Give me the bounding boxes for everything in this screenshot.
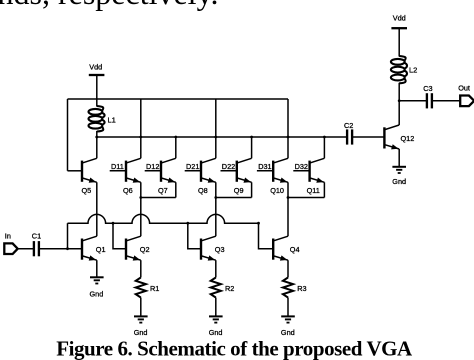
- wire top rail drop at Q10 collector: [287, 99, 289, 137]
- capacitor C1: [34, 241, 39, 256]
- wire top rail drop at Q8 collector: [215, 99, 217, 137]
- svg-text:In: In: [5, 231, 11, 240]
- document text fragment (top, clipped): [0, 0, 218, 11]
- wire output rail to Q6 collector: [140, 137, 142, 158]
- wire output node rail: [97, 136, 347, 138]
- svg-text:R2: R2: [225, 284, 234, 293]
- svg-text:Out: Out: [458, 83, 470, 92]
- label C2: [344, 121, 353, 130]
- svg-text:bands, respectively.: bands, respectively.: [0, 0, 218, 11]
- svg-text:Q7: Q7: [158, 186, 168, 195]
- ground under Q1: [90, 277, 104, 283]
- svg-text:Q6: Q6: [123, 186, 133, 195]
- svg-text:Q4: Q4: [290, 245, 300, 254]
- wire Vdd to L1: [96, 75, 98, 107]
- wire input riser to distribution line: [67, 223, 69, 249]
- wire Vdd to L2: [398, 28, 400, 56]
- wire jog to Q2 base: [113, 223, 126, 249]
- junction dots on output rail: [95, 136, 325, 139]
- wire node to C3: [399, 100, 426, 102]
- node output (L2/C3/Q12 junction): [398, 99, 401, 102]
- svg-text:C3: C3: [423, 84, 432, 93]
- wire Q6 emitter to tie: [140, 182, 142, 197]
- label Q9: [234, 186, 244, 195]
- transistor Q2: [126, 236, 141, 260]
- svg-text:C2: C2: [344, 121, 353, 130]
- label D31 control input: [258, 162, 271, 171]
- label D12 control input: [146, 162, 159, 171]
- input terminal In: [4, 243, 17, 254]
- svg-text:Q9: Q9: [234, 186, 244, 195]
- svg-text:Vdd: Vdd: [89, 62, 102, 71]
- wire Q11 emitter to tie: [323, 182, 325, 197]
- label Q8: [198, 186, 208, 195]
- inductor L2: [391, 56, 407, 83]
- wire top rail: [68, 98, 289, 100]
- svg-text:Gnd: Gnd: [392, 177, 406, 186]
- inductor L1: [89, 106, 105, 132]
- svg-text:Q1: Q1: [96, 245, 106, 254]
- svg-text:L1: L1: [108, 116, 116, 125]
- label Vdd left: [89, 62, 102, 71]
- wire In to C1: [18, 248, 34, 250]
- power Vdd (right supply): [391, 27, 407, 29]
- label Q5: [82, 186, 92, 195]
- svg-text:Vdd: Vdd: [393, 14, 406, 23]
- wire output rail to Q5 collector: [96, 137, 98, 158]
- wire R2 to ground: [215, 298, 217, 317]
- svg-text:D11: D11: [111, 162, 124, 171]
- wire Q7 emitter to tie: [175, 182, 177, 197]
- wire base distribution line with crossover hops: [68, 214, 259, 223]
- ground under R2: [209, 316, 223, 322]
- label Q6: [123, 186, 133, 195]
- transistor Q11: [293, 158, 324, 182]
- label Vdd right: [393, 14, 406, 23]
- svg-text:Q12: Q12: [401, 134, 415, 143]
- wire left vertical (top rail to Q5 base): [67, 99, 69, 171]
- wire jog to Q3 base: [188, 223, 201, 249]
- label R3: [297, 284, 306, 293]
- svg-text:C1: C1: [32, 231, 41, 240]
- wire Q1 emitter to ground: [96, 260, 98, 277]
- svg-text:Q3: Q3: [215, 245, 225, 254]
- wire R3 to ground: [287, 298, 289, 317]
- label D21 control input: [186, 162, 199, 171]
- wire C2 to Q12 base: [352, 136, 384, 138]
- junction dots on emitter ties: [139, 196, 289, 199]
- svg-text:Q2: Q2: [140, 245, 150, 254]
- power Vdd (left supply): [89, 74, 105, 76]
- wire Q9 emitter to tie: [251, 182, 253, 197]
- wire C1 to Q1 base: [39, 248, 82, 250]
- transistor Q12: [384, 125, 399, 149]
- wire C3 to Out: [432, 100, 460, 102]
- wire Q3 emitter to R2: [215, 260, 217, 277]
- transistor Q5: [68, 158, 97, 182]
- svg-text:L2: L2: [409, 66, 417, 75]
- wire Q12 collector to node: [398, 101, 400, 125]
- wire output rail to Q8 collector: [215, 137, 217, 158]
- label R1: [150, 284, 159, 293]
- svg-text:D12: D12: [146, 162, 159, 171]
- transistor Q10: [257, 158, 288, 182]
- wire output rail to Q11 collector: [323, 137, 325, 158]
- wire Q5 emitter down to Q1 collector: [96, 182, 98, 236]
- label C1: [32, 231, 41, 240]
- label Gnd under R1: [134, 328, 148, 337]
- svg-text:Q10: Q10: [270, 186, 284, 195]
- label D11 control input: [111, 162, 124, 171]
- wire top rail drop at Q6 collector: [140, 99, 142, 137]
- wire Q10-Q11 emitter tie: [288, 197, 324, 199]
- ground under R3: [281, 316, 295, 322]
- svg-text:Figure 6. Schematic of the pro: Figure 6. Schematic of the proposed VGA: [56, 337, 413, 360]
- svg-text:R3: R3: [297, 284, 306, 293]
- label D22 control input: [222, 162, 235, 171]
- svg-text:R1: R1: [150, 284, 159, 293]
- label Gnd under R3: [281, 328, 295, 337]
- label Out: [458, 83, 470, 92]
- ground under Q12: [392, 167, 406, 173]
- svg-text:D22: D22: [222, 162, 235, 171]
- label Gnd under Q1: [90, 290, 104, 299]
- svg-text:D31: D31: [258, 162, 271, 171]
- transistor Q7: [145, 158, 176, 182]
- wire Q6-Q7 emitter tie: [141, 197, 176, 199]
- transistor Q8: [185, 158, 216, 182]
- caption Figure 6: [56, 337, 413, 360]
- resistor R3: [283, 278, 293, 298]
- wire R1 to ground: [140, 298, 142, 317]
- label Q12: [401, 134, 415, 143]
- wire tie down to Q4 collector: [287, 198, 289, 237]
- resistor R2: [211, 278, 221, 298]
- wire output rail to Q9 collector: [251, 137, 253, 158]
- label Q11: [307, 186, 320, 195]
- label Q1: [96, 245, 106, 254]
- wire Q12 emitter to ground: [398, 149, 400, 167]
- wire output rail to Q7 collector: [175, 137, 177, 158]
- wire Q8-Q9 emitter tie: [216, 197, 252, 199]
- capacitor C2: [347, 129, 352, 144]
- svg-text:D21: D21: [186, 162, 199, 171]
- capacitor C3: [427, 93, 432, 108]
- wire L1 bottom to output rail: [96, 131, 98, 137]
- label R2: [225, 284, 234, 293]
- label L1: [108, 116, 116, 125]
- svg-text:Q11: Q11: [307, 186, 320, 195]
- wire Q8 emitter to tie: [215, 182, 217, 197]
- transistor Q9: [221, 158, 252, 182]
- wire tie down to Q3 collector: [215, 198, 217, 237]
- label Q7: [158, 186, 168, 195]
- svg-text:Gnd: Gnd: [90, 290, 104, 299]
- wire output rail to Q10 collector: [287, 137, 289, 158]
- wire Q2 emitter to R1: [140, 260, 142, 277]
- wire L2 to output node: [398, 83, 400, 101]
- resistor R1: [136, 278, 146, 298]
- label L2: [409, 66, 417, 75]
- transistor Q1: [82, 236, 97, 260]
- transistor Q3: [201, 236, 216, 260]
- label Q2: [140, 245, 150, 254]
- junction dots on distribution line: [66, 222, 260, 250]
- wire Q10 emitter to tie: [287, 182, 289, 197]
- svg-text:Q5: Q5: [82, 186, 92, 195]
- wire jog to Q4 base: [259, 223, 274, 249]
- label Gnd under R2: [209, 328, 223, 337]
- svg-text:Q8: Q8: [198, 186, 208, 195]
- transistor Q4: [273, 236, 288, 260]
- wire Q4 emitter to R3: [287, 260, 289, 277]
- label D32 control input: [295, 162, 308, 171]
- label Gnd under Q12: [392, 177, 406, 186]
- label Q10: [270, 186, 284, 195]
- label C3: [423, 84, 432, 93]
- ground under R1: [134, 316, 148, 322]
- output terminal Out: [460, 96, 474, 107]
- label Q3: [215, 245, 225, 254]
- label Q4: [290, 245, 300, 254]
- label In: [5, 231, 11, 240]
- svg-text:D32: D32: [295, 162, 308, 171]
- transistor Q6: [110, 158, 141, 182]
- wire tie down to Q2 collector: [140, 198, 142, 237]
